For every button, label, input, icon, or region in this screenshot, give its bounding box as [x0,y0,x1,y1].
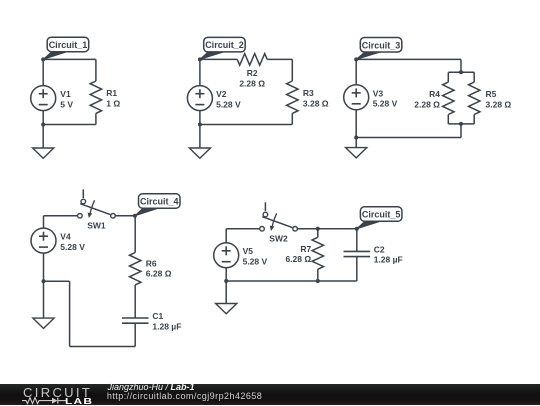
svg-text:2.28 Ω: 2.28 Ω [414,99,440,109]
svg-text:5.28 V: 5.28 V [373,99,398,109]
svg-text:R2: R2 [247,68,258,78]
svg-text:Circuit_1: Circuit_1 [49,40,88,50]
svg-text:Circuit_3: Circuit_3 [362,40,401,50]
svg-text:2.28 Ω: 2.28 Ω [239,78,265,88]
svg-text:5.28 V: 5.28 V [60,242,85,252]
svg-text:V2: V2 [216,89,227,99]
svg-text:3.28 Ω: 3.28 Ω [486,99,512,109]
svg-text:5.28 V: 5.28 V [216,99,241,109]
svg-text:5 V: 5 V [60,99,73,109]
svg-text:R4: R4 [429,89,440,99]
svg-text:SW2: SW2 [269,234,288,244]
svg-text:R1: R1 [106,88,117,98]
svg-text:R3: R3 [303,88,314,98]
svg-text:V1: V1 [60,89,71,99]
svg-text:5.28 V: 5.28 V [243,256,268,266]
svg-text:1 Ω: 1 Ω [106,98,120,108]
svg-text:6.28 Ω: 6.28 Ω [146,269,172,279]
svg-text:Circuit_2: Circuit_2 [205,40,244,50]
svg-text:Circuit_5: Circuit_5 [362,210,401,220]
svg-text:R6: R6 [146,258,157,268]
svg-text:R7: R7 [300,244,311,254]
svg-text:V5: V5 [243,246,254,256]
svg-text:C2: C2 [374,245,385,255]
svg-text:1.28 µF: 1.28 µF [152,321,181,331]
svg-text:1.28 µF: 1.28 µF [374,255,403,265]
svg-text:SW1: SW1 [87,221,106,231]
svg-text:C1: C1 [152,311,163,321]
svg-text:6.28 Ω: 6.28 Ω [285,254,311,264]
svg-text:R5: R5 [486,89,497,99]
svg-text:V3: V3 [373,88,384,98]
svg-text:Circuit_4: Circuit_4 [140,197,179,207]
svg-text:V4: V4 [60,232,71,242]
svg-text:3.28 Ω: 3.28 Ω [303,98,329,108]
